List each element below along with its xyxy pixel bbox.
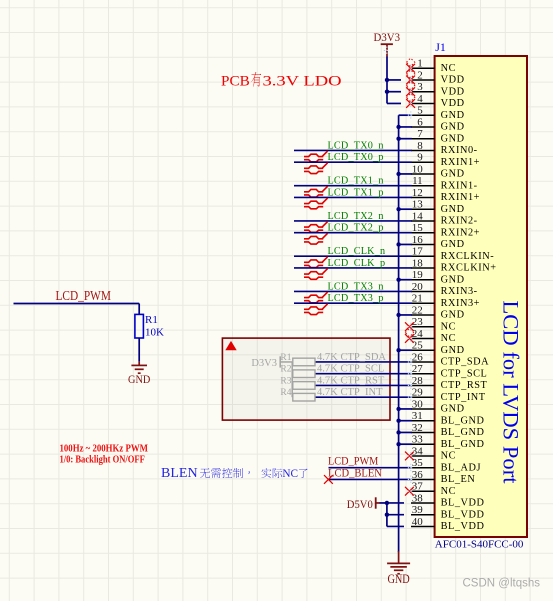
svg-text:LCD_TX3_n: LCD_TX3_n xyxy=(328,281,384,292)
svg-text:RXIN3+: RXIN3+ xyxy=(441,298,480,309)
svg-text:BL_EN: BL_EN xyxy=(441,474,476,485)
svg-text:D3V3: D3V3 xyxy=(251,358,277,369)
svg-text:40: 40 xyxy=(412,516,424,528)
svg-text:RXIN1-: RXIN1- xyxy=(441,180,478,191)
svg-text:33: 33 xyxy=(412,434,424,446)
svg-text:VDD: VDD xyxy=(441,98,465,109)
svg-text:36: 36 xyxy=(412,469,424,481)
svg-text:4.7K: 4.7K xyxy=(317,364,338,375)
svg-text:NC: NC xyxy=(441,321,456,332)
svg-text:CTP_SDA: CTP_SDA xyxy=(441,357,489,368)
svg-text:BL_GND: BL_GND xyxy=(441,415,485,426)
svg-text:BL_GND: BL_GND xyxy=(441,439,485,450)
svg-text:25: 25 xyxy=(412,340,424,352)
svg-text:CTP_RST: CTP_RST xyxy=(441,380,488,391)
svg-text:BL_VDD: BL_VDD xyxy=(441,509,485,520)
svg-text:27: 27 xyxy=(412,363,424,375)
svg-text:38: 38 xyxy=(412,492,424,504)
svg-text:NC: NC xyxy=(282,468,298,480)
svg-text:BL_ADJ: BL_ADJ xyxy=(441,462,482,473)
svg-text:RXCLKIN+: RXCLKIN+ xyxy=(441,263,497,274)
svg-text:CTP_RST: CTP_RST xyxy=(341,375,385,386)
svg-text:CTP_SDA: CTP_SDA xyxy=(341,352,387,363)
svg-text:PCB: PCB xyxy=(221,72,250,89)
svg-text:RXIN2-: RXIN2- xyxy=(441,216,478,227)
svg-text:10: 10 xyxy=(412,163,424,175)
svg-text:AFC01-S40FCC-00: AFC01-S40FCC-00 xyxy=(435,539,524,551)
svg-text:R3: R3 xyxy=(280,376,291,386)
svg-text:1/0: Backlight ON/OFF: 1/0: Backlight ON/OFF xyxy=(60,454,145,465)
svg-text:GND: GND xyxy=(441,169,465,180)
svg-text:BL_VDD: BL_VDD xyxy=(441,498,485,509)
svg-text:CSDN @ltqshs: CSDN @ltqshs xyxy=(463,577,541,589)
svg-text:9: 9 xyxy=(417,152,423,164)
svg-text:VDD: VDD xyxy=(441,86,465,97)
svg-text:17: 17 xyxy=(412,246,424,258)
svg-text:RXIN3-: RXIN3- xyxy=(441,286,478,297)
svg-text:10K: 10K xyxy=(145,327,164,339)
svg-text:GND: GND xyxy=(441,110,465,121)
svg-text:LCD_PWM: LCD_PWM xyxy=(56,288,111,303)
svg-text:LCD_BLEN: LCD_BLEN xyxy=(328,467,382,480)
svg-text:GND: GND xyxy=(441,404,465,415)
svg-text:RXIN2+: RXIN2+ xyxy=(441,227,480,238)
svg-text:BL_VDD: BL_VDD xyxy=(441,521,485,532)
svg-text:16: 16 xyxy=(412,234,424,246)
svg-text:RXIN0-: RXIN0- xyxy=(441,145,478,156)
svg-text:14: 14 xyxy=(412,210,424,222)
svg-text:GND: GND xyxy=(441,310,465,321)
svg-text:39: 39 xyxy=(412,504,424,516)
svg-text:NC: NC xyxy=(441,63,456,74)
svg-text:D5V0: D5V0 xyxy=(347,499,373,511)
svg-text:BLEN: BLEN xyxy=(161,466,198,481)
svg-text:4.7K: 4.7K xyxy=(317,352,338,363)
svg-text:R2: R2 xyxy=(280,365,291,375)
svg-text:R1: R1 xyxy=(145,314,158,326)
svg-text:32: 32 xyxy=(412,422,423,434)
svg-text:15: 15 xyxy=(412,222,424,234)
svg-text:18: 18 xyxy=(412,257,424,269)
svg-text:J1: J1 xyxy=(435,40,446,54)
svg-text:R4: R4 xyxy=(280,388,291,398)
svg-text:RXIN1+: RXIN1+ xyxy=(441,157,480,168)
svg-text:NC: NC xyxy=(441,333,456,344)
svg-text:LCD_TX1_p: LCD_TX1_p xyxy=(328,187,384,198)
svg-text:GND: GND xyxy=(441,133,465,144)
svg-text:LCD_TX2_n: LCD_TX2_n xyxy=(328,211,384,222)
svg-text:6: 6 xyxy=(417,116,423,128)
svg-text:31: 31 xyxy=(412,410,423,422)
svg-text:LCD_PWM: LCD_PWM xyxy=(328,454,378,467)
svg-text:26: 26 xyxy=(412,351,424,363)
svg-text:20: 20 xyxy=(412,281,424,293)
svg-text:29: 29 xyxy=(412,387,424,399)
svg-text:100Hz ~ 200HKz PWM: 100Hz ~ 200HKz PWM xyxy=(60,444,149,455)
svg-text:4: 4 xyxy=(417,93,423,105)
svg-text:12: 12 xyxy=(412,187,423,199)
svg-text:21: 21 xyxy=(412,293,423,305)
svg-text:19: 19 xyxy=(412,269,424,281)
svg-text:7: 7 xyxy=(417,128,423,140)
svg-text:CTP_INT: CTP_INT xyxy=(441,392,486,403)
svg-text:30: 30 xyxy=(412,398,424,410)
svg-text:LCD_TX2_p: LCD_TX2_p xyxy=(328,223,384,234)
svg-text:22: 22 xyxy=(412,304,423,316)
svg-text:11: 11 xyxy=(412,175,423,187)
svg-text:GND: GND xyxy=(441,204,465,215)
svg-text:R1: R1 xyxy=(280,353,291,363)
svg-text:3: 3 xyxy=(417,81,423,93)
svg-text:D3V3: D3V3 xyxy=(374,32,401,44)
svg-text:NC: NC xyxy=(441,486,456,497)
svg-text:LCD_TX1_n: LCD_TX1_n xyxy=(328,176,384,187)
svg-text:GND: GND xyxy=(441,122,465,133)
svg-text:NC: NC xyxy=(441,451,456,462)
svg-text:BL_GND: BL_GND xyxy=(441,427,485,438)
svg-text:VDD: VDD xyxy=(441,75,465,86)
svg-text:GND: GND xyxy=(441,239,465,250)
svg-text:RXCLKIN-: RXCLKIN- xyxy=(441,251,495,262)
svg-text:4.7K: 4.7K xyxy=(317,375,338,386)
svg-text:LCD_TX0_n: LCD_TX0_n xyxy=(328,140,384,151)
svg-text:4.7K: 4.7K xyxy=(317,387,338,398)
svg-text:LCD_TX0_p: LCD_TX0_p xyxy=(328,152,384,163)
svg-text:1: 1 xyxy=(417,58,423,70)
svg-text:13: 13 xyxy=(412,199,424,211)
svg-text:CTP_SCL: CTP_SCL xyxy=(441,368,488,379)
svg-text:RXIN1+: RXIN1+ xyxy=(441,192,480,203)
svg-text:2: 2 xyxy=(417,69,423,81)
svg-text:CTP_SCL: CTP_SCL xyxy=(341,364,385,375)
svg-text:3.3V LDO: 3.3V LDO xyxy=(263,72,342,89)
svg-text:LCD_CLK_n: LCD_CLK_n xyxy=(328,246,386,257)
svg-text:LCD_CLK_p: LCD_CLK_p xyxy=(328,258,386,269)
svg-text:LCD_TX3_p: LCD_TX3_p xyxy=(328,293,384,304)
svg-text:35: 35 xyxy=(412,457,424,469)
svg-text:8: 8 xyxy=(417,140,423,152)
svg-text:5: 5 xyxy=(417,105,423,117)
svg-text:GND: GND xyxy=(441,345,465,356)
svg-text:GND: GND xyxy=(387,572,409,586)
svg-text:GND: GND xyxy=(441,274,465,285)
svg-text:GND: GND xyxy=(128,372,151,386)
svg-text:28: 28 xyxy=(412,375,424,387)
svg-text:LCD for LVDS Port: LCD for LVDS Port xyxy=(499,301,524,485)
svg-text:CTP_INT: CTP_INT xyxy=(341,387,384,398)
